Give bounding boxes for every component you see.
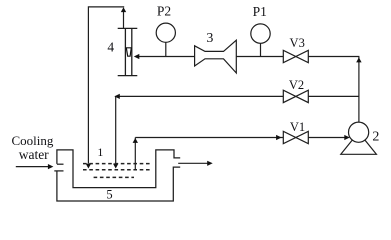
svg-text:Cooling: Cooling	[11, 133, 53, 148]
svg-text:V1: V1	[290, 120, 305, 134]
svg-text:P1: P1	[253, 4, 267, 19]
svg-text:1: 1	[97, 145, 103, 159]
wire: V2 drop into coil	[115, 96, 117, 163]
arrow left at V2 corner	[114, 94, 120, 99]
tank outlet line	[178, 162, 207, 164]
arrow right on tank outlet	[207, 161, 213, 166]
valve V3	[283, 50, 308, 62]
arrow down into coil from V2 drop	[113, 164, 118, 169]
svg-text:3: 3	[206, 31, 213, 46]
svg-text:5: 5	[106, 187, 112, 201]
wire: top-left loop (rotameter outlet to coil)	[88, 7, 124, 164]
gauge P2 stem	[165, 42, 167, 56]
arrow up at top-right corner	[356, 57, 361, 62]
svg-text:P2: P2	[157, 4, 171, 19]
tank 5 outline	[54, 150, 180, 201]
arrow up at rotameter riser top	[121, 7, 126, 12]
pump base triangle	[341, 132, 377, 154]
arrow up at coil outlet corner	[133, 138, 138, 143]
wire: coil outlet riser	[134, 138, 136, 171]
gauge P1	[251, 24, 270, 43]
wire: right riser from pump to top-right corner	[358, 57, 360, 122]
svg-text:V3: V3	[290, 36, 305, 50]
svg-text:2: 2	[372, 130, 379, 145]
rotameter float	[126, 48, 131, 56]
gauge P2	[156, 23, 175, 42]
arrow right on cooling water inlet	[48, 164, 54, 169]
arrow down into coil from left loop	[86, 164, 91, 169]
svg-text:V2: V2	[289, 78, 304, 92]
compressor 3	[195, 40, 237, 73]
valve V2	[283, 90, 308, 102]
wire: riser from rotameter top cap	[123, 11, 125, 29]
arrow right on V1 line	[276, 135, 282, 140]
pump 2 circle	[349, 122, 369, 142]
tank inlet lower lip	[54, 170, 63, 172]
tank inlet upper lip	[57, 163, 64, 165]
cooling water inlet line	[16, 166, 49, 168]
arrow right into pump inlet	[344, 135, 350, 140]
arrow left into rotameter float	[134, 54, 140, 59]
svg-text:4: 4	[107, 39, 114, 54]
rotameter 4 body	[118, 28, 138, 75]
svg-text:water: water	[19, 147, 49, 162]
wire: V1 line from coil outlet to pump	[135, 137, 345, 139]
wire: valve V3 to top-right corner	[308, 56, 359, 58]
coil water level dashed lines	[83, 164, 151, 178]
wire: main line from rotameter to compressor	[139, 56, 195, 58]
wire: main line compressor to valve V3	[236, 56, 283, 58]
gauge P1 stem	[260, 43, 262, 56]
wire: V2 branch line	[116, 95, 359, 97]
valve V1	[283, 131, 308, 143]
